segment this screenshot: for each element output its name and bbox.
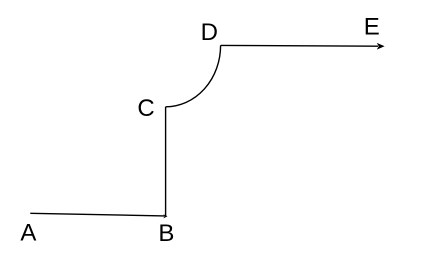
- arrowhead at E: [377, 43, 385, 50]
- wire B to C: [165, 107, 167, 217]
- svg-text:E: E: [364, 14, 380, 41]
- arrowhead at B: [163, 214, 167, 218]
- svg-text:A: A: [20, 219, 36, 246]
- svg-text:C: C: [137, 95, 154, 122]
- svg-text:D: D: [201, 19, 218, 46]
- wire C to D (arc): [166, 45, 221, 106]
- wire A to B: [30, 213, 164, 216]
- svg-text:B: B: [158, 220, 174, 247]
- wire D to E: [221, 44, 378, 47]
